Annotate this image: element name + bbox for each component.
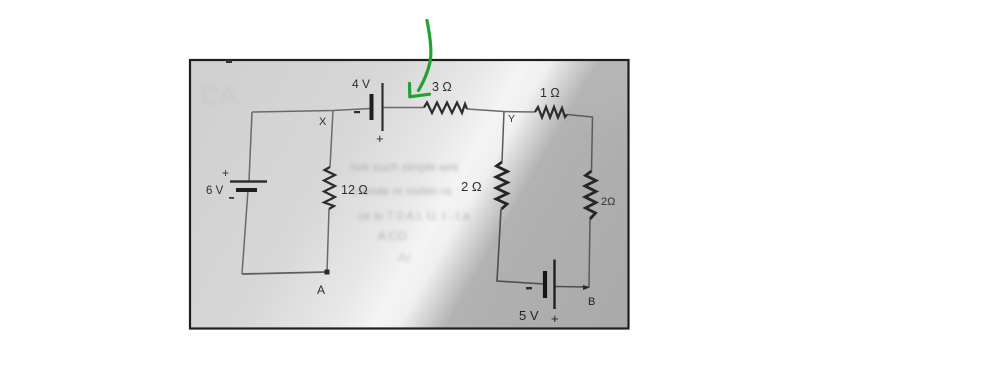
svg-text:6 V: 6 V — [206, 185, 224, 197]
wire 2ohm to 5V battery — [497, 209, 544, 284]
annotation green arrow — [410, 21, 431, 97]
svg-text:X: X — [319, 116, 327, 128]
wire 12ohm to A — [327, 209, 329, 272]
svg-text:nve such simple wnt: nve such simple wnt — [350, 160, 459, 174]
wire 4V to 3ohm — [383, 107, 424, 109]
node B — [583, 285, 595, 308]
svg-text:2 Ω: 2 Ω — [461, 179, 482, 194]
svg-text:CA: CA — [201, 80, 238, 110]
svg-text:Ar: Ar — [398, 250, 412, 265]
svg-text:3 Ω: 3 Ω — [432, 80, 452, 94]
svg-text:2Ω: 2Ω — [601, 196, 615, 208]
wire X branch upper — [330, 111, 333, 168]
svg-text:5 V: 5 V — [519, 308, 539, 323]
wire right lower vertical — [589, 219, 590, 287]
wire 1ohm to right corner down — [567, 115, 593, 172]
wire top-left horizontal — [252, 109, 371, 113]
svg-text:ce le 7 0 A t. U. t - t.a: ce le 7 0 A t. U. t - t.a — [358, 209, 470, 223]
resistor R3 1ohm — [535, 107, 567, 118]
resistor R1 12ohm — [324, 167, 335, 209]
svg-text:A: A — [317, 283, 325, 297]
photo frame — [190, 60, 629, 329]
photo background — [191, 61, 628, 328]
wire 5V battery to B — [555, 286, 589, 289]
svg-text:+: + — [376, 131, 384, 146]
node A — [317, 270, 330, 298]
bleed-through faint text — [201, 80, 470, 265]
wire Y branch upper — [502, 112, 504, 163]
svg-text:4 V: 4 V — [352, 77, 370, 91]
wire 3ohm to Y to 1ohm — [467, 109, 535, 112]
wire bottom-left — [242, 272, 327, 274]
svg-text:B: B — [588, 296, 595, 308]
battery V1 6V — [206, 166, 267, 199]
svg-text:1 Ω: 1 Ω — [540, 86, 560, 100]
wire left vertical — [242, 112, 252, 274]
resistor R2 3ohm — [424, 103, 467, 114]
battery V2 4V — [352, 77, 384, 146]
svg-text:+: + — [551, 311, 559, 326]
svg-text:+: + — [222, 166, 229, 180]
svg-text:A CO: A CO — [378, 229, 407, 243]
svg-text:12 Ω: 12 Ω — [341, 183, 368, 197]
resistor R5 2ohm right — [585, 171, 596, 219]
battery V3 5V — [519, 260, 559, 327]
svg-text:Y: Y — [508, 113, 515, 125]
resistor R4 2ohm left — [496, 162, 508, 209]
